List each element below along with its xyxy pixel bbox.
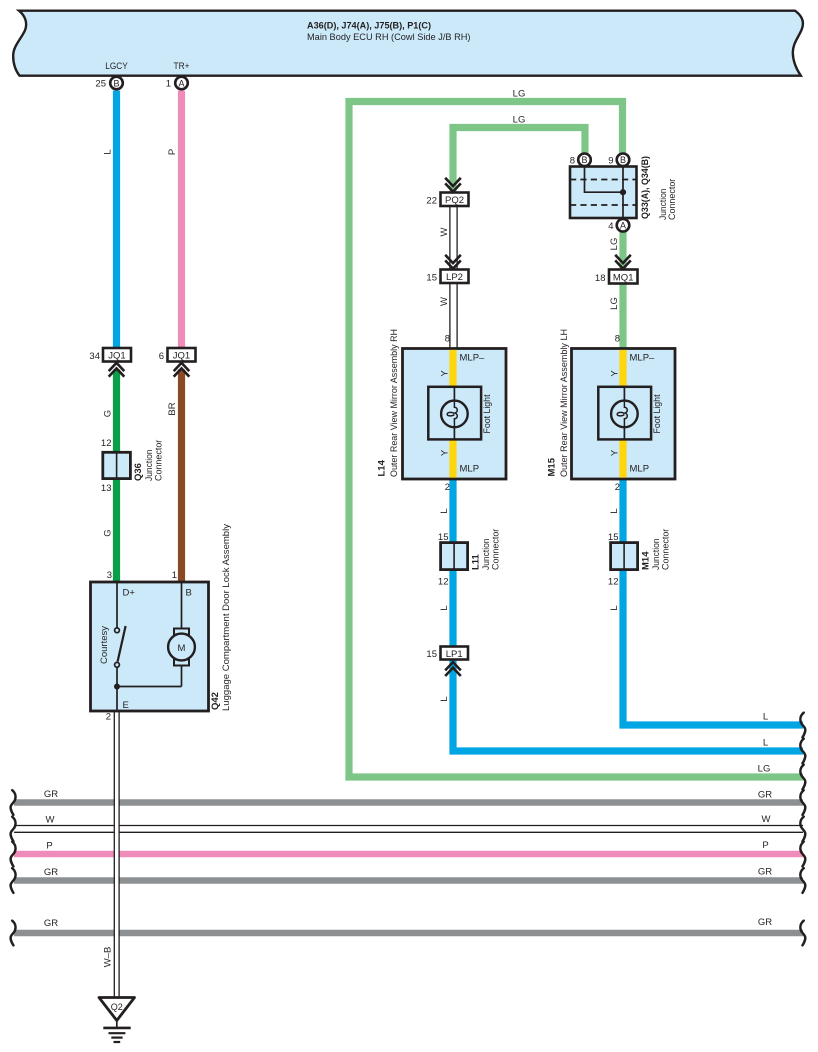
connector 18 MQ1 <box>595 255 638 284</box>
svg-text:A36(D), J74(A), J75(B), P1(C): A36(D), J74(A), J75(B), P1(C) <box>307 21 431 32</box>
svg-text:6: 6 <box>159 351 164 362</box>
svg-text:B: B <box>113 78 119 88</box>
svg-text:MLP: MLP <box>630 464 650 475</box>
svg-text:GR: GR <box>758 867 772 878</box>
svg-text:Luggage Compartment Door Lock: Luggage Compartment Door Lock Assembly <box>221 524 232 711</box>
svg-text:LP2: LP2 <box>446 272 463 283</box>
svg-text:Connector: Connector <box>661 529 672 570</box>
svg-text:12: 12 <box>101 438 112 449</box>
svg-text:Q33(A), Q34(B): Q33(A), Q34(B) <box>640 156 651 219</box>
bus wire W <box>14 826 803 833</box>
svg-text:12: 12 <box>608 577 619 588</box>
svg-text:LG: LG <box>609 238 620 251</box>
svg-text:A: A <box>178 78 184 88</box>
svg-text:Y: Y <box>440 449 451 456</box>
wire LG from MQ1 to M15 pin8 <box>619 284 626 350</box>
foot light M15 <box>598 387 651 440</box>
svg-text:34: 34 <box>89 351 100 362</box>
pin 1 (A) of banner <box>166 77 188 90</box>
wire W from PQ2 to LP2 <box>450 206 457 271</box>
connector 22 PQ2 <box>426 178 468 207</box>
svg-text:Q36: Q36 <box>133 463 144 481</box>
bus wire GR 1 <box>14 799 803 806</box>
svg-text:12: 12 <box>438 577 449 588</box>
connector 15 LP1 <box>426 647 468 677</box>
courtesy switch <box>116 582 118 628</box>
svg-text:W: W <box>46 815 55 826</box>
svg-text:L: L <box>439 605 450 610</box>
svg-text:M14: M14 <box>641 551 652 570</box>
svg-text:P: P <box>167 149 178 155</box>
svg-text:W: W <box>439 297 450 306</box>
svg-text:L: L <box>609 605 620 610</box>
svg-text:JQ1: JQ1 <box>108 351 125 362</box>
connector 6 JQ1 <box>159 348 196 377</box>
wire L from L14 pin2 through L11 to LP1 <box>449 479 456 543</box>
break symbols right <box>800 713 805 738</box>
svg-text:LG: LG <box>513 115 526 126</box>
svg-text:A: A <box>620 221 626 231</box>
svg-text:MLP–: MLP– <box>630 353 656 364</box>
svg-text:L: L <box>609 508 620 513</box>
svg-text:3: 3 <box>107 570 112 581</box>
svg-text:L14: L14 <box>377 459 388 476</box>
svg-text:P: P <box>46 841 52 852</box>
svg-text:1: 1 <box>166 79 171 90</box>
svg-text:E: E <box>123 700 129 711</box>
svg-text:15: 15 <box>426 649 437 660</box>
svg-text:Connector: Connector <box>667 179 678 220</box>
svg-text:1: 1 <box>172 570 177 581</box>
svg-text:13: 13 <box>101 483 112 494</box>
svg-text:B: B <box>186 588 192 599</box>
junction connector L11 <box>438 529 502 588</box>
junction connector Q33(A), Q34(B) <box>570 154 678 233</box>
svg-text:Connector: Connector <box>154 440 165 481</box>
foot light L14 <box>428 387 481 440</box>
bus wire GR 2 <box>14 877 803 884</box>
svg-text:Foot Light: Foot Light <box>482 394 493 433</box>
svg-text:L: L <box>763 712 768 723</box>
wire L from M15 pin2 through M14 <box>619 479 626 543</box>
svg-text:GR: GR <box>44 789 58 800</box>
svg-text:Y: Y <box>610 370 621 377</box>
svg-text:2: 2 <box>445 482 450 493</box>
break symbols left <box>11 790 16 815</box>
wire LG inner loop: to junction Q33 pin8 and to PQ2 <box>453 128 585 194</box>
svg-text:P: P <box>762 840 768 851</box>
junction connector Q36 <box>101 438 165 494</box>
svg-text:9: 9 <box>608 156 613 167</box>
svg-text:25: 25 <box>95 79 106 90</box>
svg-text:W–B: W–B <box>103 947 114 968</box>
svg-text:L: L <box>763 738 768 749</box>
svg-text:B: B <box>581 155 587 165</box>
junction connector M14 <box>608 529 672 588</box>
wire L from LP1 down and right to edge <box>453 660 803 752</box>
svg-text:Foot Light: Foot Light <box>652 394 663 433</box>
outer rear view mirror assembly RH L14 <box>377 329 507 479</box>
svg-text:LP1: LP1 <box>446 649 463 660</box>
svg-text:MLP–: MLP– <box>460 353 486 364</box>
svg-text:Outer Rear View Mirror Assembl: Outer Rear View Mirror Assembly RH <box>389 329 400 477</box>
svg-text:L: L <box>103 149 114 154</box>
svg-text:8: 8 <box>570 156 575 167</box>
wire L from M14 down and right to edge <box>623 570 803 725</box>
svg-text:D+: D+ <box>123 588 136 599</box>
bus wire P <box>14 851 803 858</box>
svg-text:GR: GR <box>758 917 772 928</box>
ground Q2 <box>99 998 135 1043</box>
svg-text:M15: M15 <box>547 457 558 476</box>
svg-text:Y: Y <box>610 449 621 456</box>
svg-text:4: 4 <box>608 221 613 232</box>
svg-text:Q42: Q42 <box>210 692 221 710</box>
svg-text:LG: LG <box>513 89 526 100</box>
svg-text:W: W <box>762 814 771 825</box>
svg-text:L11: L11 <box>471 553 482 570</box>
svg-text:Main Body ECU RH (Cowl Side J/: Main Body ECU RH (Cowl Side J/B RH) <box>307 32 471 43</box>
svg-text:B: B <box>620 155 626 165</box>
svg-text:LG: LG <box>758 764 771 775</box>
svg-text:GR: GR <box>44 918 58 929</box>
svg-text:L: L <box>439 696 450 701</box>
svg-text:MLP: MLP <box>460 464 480 475</box>
svg-text:Q2: Q2 <box>111 1002 123 1012</box>
svg-text:Y: Y <box>440 370 451 377</box>
svg-text:BR: BR <box>167 402 178 415</box>
pin 25 (B) of banner <box>95 77 122 90</box>
wire LG outer loop: banner area to junction Q33 pin9 and down left side to bottom right <box>349 102 803 778</box>
svg-text:Courtesy: Courtesy <box>99 626 110 664</box>
motor M <box>117 582 182 687</box>
svg-text:PQ2: PQ2 <box>445 195 464 206</box>
svg-text:L: L <box>439 508 450 513</box>
ECU banner A36(D), J74(A), J75(B), P1(C) Main Body ECU RH <box>13 11 803 76</box>
connector 34 JQ1 <box>89 348 131 377</box>
svg-text:18: 18 <box>595 273 606 284</box>
wire G from JQ1 chevron to Q36 <box>113 370 120 454</box>
connector 15 LP2 <box>426 255 468 284</box>
svg-text:JQ1: JQ1 <box>173 351 190 362</box>
wire BR from JQ1 chevron to Q42 pin B <box>178 370 185 583</box>
svg-text:Outer Rear View Mirror Assembl: Outer Rear View Mirror Assembly LH <box>559 329 570 477</box>
svg-text:G: G <box>103 410 114 417</box>
luggage compartment door lock assembly Q42 <box>91 524 233 711</box>
svg-text:LG: LG <box>609 297 620 310</box>
svg-text:MQ1: MQ1 <box>613 273 634 284</box>
wire G from Q36 to Q42 pin D+ <box>113 478 120 582</box>
wire W-B from Q42 pin E to ground Q2 <box>114 711 118 997</box>
wire W from LP2 to L14 pin8 <box>450 283 457 349</box>
wire LG from Q33 pin4 to MQ1 <box>619 232 626 270</box>
svg-text:G: G <box>103 529 114 536</box>
svg-text:LGCY: LGCY <box>105 61 128 72</box>
outer rear view mirror assembly LH M15 <box>547 329 676 479</box>
svg-text:2: 2 <box>106 712 111 723</box>
svg-text:GR: GR <box>758 790 772 801</box>
wire P pink from pin A to JQ1 <box>178 91 185 348</box>
svg-text:Connector: Connector <box>491 529 502 570</box>
bus wire GR 3 <box>14 930 803 937</box>
svg-text:8: 8 <box>445 334 450 345</box>
svg-text:W: W <box>439 227 450 236</box>
wire L blue from pin B to JQ1 <box>113 91 120 348</box>
svg-text:15: 15 <box>426 273 437 284</box>
svg-text:TR+: TR+ <box>174 61 190 72</box>
svg-text:22: 22 <box>426 196 437 207</box>
svg-text:8: 8 <box>615 334 620 345</box>
svg-text:2: 2 <box>615 482 620 493</box>
svg-text:GR: GR <box>44 867 58 878</box>
svg-text:M: M <box>178 643 186 654</box>
